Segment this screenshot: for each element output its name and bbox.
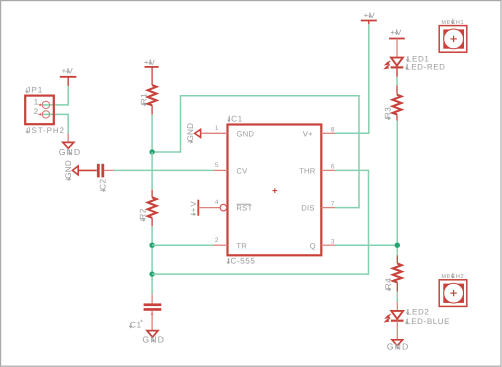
wire JP1 pin2 to GND xyxy=(40,114,68,133)
svg-text:8: 8 xyxy=(331,126,335,133)
svg-text:2: 2 xyxy=(215,237,219,244)
svg-text:+V: +V xyxy=(189,200,198,212)
svg-text:THR: THR xyxy=(299,167,316,176)
pin 5 stub xyxy=(214,169,228,171)
svg-text:LED-BLUE: LED-BLUE xyxy=(406,317,450,326)
pin 1 line xyxy=(201,132,228,134)
resistor R4 xyxy=(393,264,402,283)
IC origin cross xyxy=(272,188,277,193)
LED1 arrows xyxy=(385,61,391,69)
wire THR node to THR pin xyxy=(152,170,368,274)
pin 3 stub xyxy=(321,244,335,246)
svg-text:IC1: IC1 xyxy=(228,115,242,124)
capacitor C2 xyxy=(97,164,104,178)
resistor R1 lead xyxy=(151,105,153,115)
wire node to R2 xyxy=(151,152,153,190)
LED2 arrows xyxy=(385,314,391,322)
svg-text:GND: GND xyxy=(64,160,73,179)
C1 origin arrow xyxy=(151,313,153,319)
resistor R2 xyxy=(148,197,157,217)
op-amp/IC U1 box xyxy=(228,125,322,256)
ground (C2) xyxy=(72,166,96,175)
capacitor C1 xyxy=(144,303,162,310)
wire Q pin to node xyxy=(335,244,397,246)
wire LED1 to R3 xyxy=(396,77,398,86)
wire R2 to TR node xyxy=(151,226,153,245)
resistor R4 lead bottom xyxy=(396,282,398,291)
svg-text:V+: V+ xyxy=(303,129,313,138)
wire THR node down to C1 xyxy=(151,274,153,294)
svg-text:+: + xyxy=(140,319,144,325)
LED2 xyxy=(391,311,404,321)
resistor R4 lead top xyxy=(396,256,398,264)
supply +V (top right) symbol xyxy=(361,21,377,25)
wire pin8 to +V xyxy=(335,24,369,133)
wire TR node down to THR node xyxy=(151,245,153,274)
svg-text:LED-RED: LED-RED xyxy=(406,62,445,71)
svg-text:TR: TR xyxy=(236,241,247,250)
supply +V (RST) symbol xyxy=(197,200,199,216)
LED1 cathode lead xyxy=(396,67,398,77)
svg-text:R2: R2 xyxy=(138,208,147,220)
svg-text:2: 2 xyxy=(34,107,39,116)
resistor R3 lead bottom xyxy=(396,114,398,120)
svg-text:7: 7 xyxy=(331,201,335,208)
svg-text:C2: C2 xyxy=(99,178,108,190)
supply +V (JP1) symbol xyxy=(60,77,77,86)
svg-text:RST: RST xyxy=(236,204,252,213)
wire R4 to LED2 xyxy=(396,292,398,302)
resistor R2 lead bottom xyxy=(151,218,153,226)
mounting hole MECH2 xyxy=(439,280,467,307)
resistor R3 xyxy=(393,95,402,115)
resistor R3 lead top xyxy=(396,86,398,95)
svg-text:GND: GND xyxy=(142,334,165,344)
wire R1 bottom to node xyxy=(151,115,153,152)
svg-text:1: 1 xyxy=(34,98,39,107)
pin 6 stub xyxy=(321,169,335,171)
pin LED2 top xyxy=(396,302,398,311)
svg-text:CV: CV xyxy=(236,167,248,176)
pin C1 bottom to ground xyxy=(151,311,153,330)
svg-text:Q: Q xyxy=(310,241,316,250)
resistor R2 lead top xyxy=(151,190,153,198)
svg-text:4: 4 xyxy=(215,199,219,206)
junction node R1/R2/DIS xyxy=(149,149,154,154)
svg-text:GND: GND xyxy=(387,341,410,351)
pin 2 stub xyxy=(214,244,228,246)
resistor R1 xyxy=(148,85,157,105)
supply +V (R1) symbol xyxy=(145,67,159,85)
svg-text:6: 6 xyxy=(331,164,335,171)
ground (IC pin1) xyxy=(195,129,201,137)
svg-text:R4: R4 xyxy=(384,278,393,290)
svg-text:LED2: LED2 xyxy=(407,307,429,316)
ground (C1) xyxy=(147,331,158,338)
LED1 xyxy=(391,58,404,68)
svg-text:IC-555: IC-555 xyxy=(228,257,256,266)
text origin markers xyxy=(26,13,455,349)
svg-text:1: 1 xyxy=(215,125,219,132)
pin 4 line xyxy=(198,207,220,209)
connector JP1 xyxy=(25,96,54,125)
svg-text:GND: GND xyxy=(236,129,254,138)
pin 4 inversion bubble xyxy=(220,204,227,211)
pin 7 stub xyxy=(321,207,335,209)
junction node TR xyxy=(149,243,154,248)
svg-text:R3: R3 xyxy=(384,107,393,119)
mounting hole MECH1 xyxy=(439,26,467,53)
supply +V (LED1) symbol xyxy=(389,38,405,40)
wire node down to R4 xyxy=(396,245,398,256)
wire C2 to CV pin xyxy=(114,169,214,171)
junction node THR-line xyxy=(149,271,154,276)
svg-text:JST-PH2: JST-PH2 xyxy=(27,126,65,135)
svg-text:GND: GND xyxy=(186,123,195,142)
wire node to DIS pin xyxy=(152,96,359,208)
wire JP1 pin1 to +V xyxy=(40,86,68,105)
svg-text:R1: R1 xyxy=(139,93,148,105)
svg-text:5: 5 xyxy=(215,162,219,169)
ground (below JP1) xyxy=(63,133,74,148)
pin +V to LED1 xyxy=(396,39,398,58)
wire TR node to TR pin xyxy=(152,244,213,246)
svg-text:DIS: DIS xyxy=(301,204,314,213)
wire node up to R3 xyxy=(396,121,398,246)
svg-text:3: 3 xyxy=(331,238,335,245)
pin C2 to wire xyxy=(104,169,114,171)
junction node Q xyxy=(395,243,400,248)
svg-text:JP1: JP1 xyxy=(26,86,43,95)
pin C1 top xyxy=(151,295,153,304)
LED2 cathode to ground xyxy=(396,321,398,339)
pin 8 stub xyxy=(321,132,335,134)
ground (LED2) xyxy=(392,340,403,346)
JP1 pin connection arrows xyxy=(38,104,41,116)
